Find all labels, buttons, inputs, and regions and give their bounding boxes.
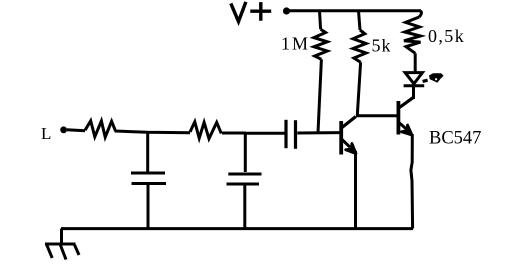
resistor R5 (series) (190, 122, 221, 139)
wire R4 to R5 via node A (115, 131, 190, 133)
svg-text:BC547: BC547 (429, 129, 481, 149)
ground (45, 229, 79, 260)
transistor Q1 (341, 117, 356, 155)
resistor R3 0.5k (404, 11, 421, 72)
wire R5 to node B / C3 (222, 132, 246, 135)
wire bottom ground rail (61, 227, 413, 230)
label V+ supply (232, 4, 270, 22)
wire LED cathode to Q2 collector (412, 87, 415, 100)
svg-text:1M: 1M (281, 34, 310, 54)
wire top supply rail (286, 9, 421, 12)
svg-text:0,5k: 0,5k (428, 26, 465, 46)
capacitor C3 coupling (246, 120, 340, 149)
node L terminal dot (60, 126, 67, 133)
resistor R4 (series input) (85, 121, 116, 137)
svg-text:L: L (41, 124, 51, 143)
led D1 (404, 73, 444, 86)
wire Q1 collector / 5k node to Q2 base (356, 114, 397, 117)
capacitor C1 (131, 132, 166, 228)
transistor Q2 BC547 (398, 98, 412, 135)
svg-text:5k: 5k (372, 36, 392, 56)
resistor R2 5k (353, 11, 366, 116)
node V+ terminal dot (283, 7, 290, 14)
capacitor C2 (227, 133, 262, 229)
wire L dot to R4 (67, 130, 85, 131)
resistor R1 1M (314, 11, 327, 133)
wire Q2 emitter to ground rail (411, 134, 413, 229)
wire Q1 emitter to ground rail (354, 151, 357, 229)
